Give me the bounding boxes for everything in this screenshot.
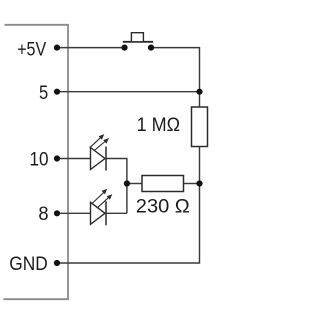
LED D1 triangle <box>91 148 106 170</box>
connector block U1 (microcontroller port outline) <box>4 25 69 299</box>
pushbutton S1 bar <box>123 41 153 43</box>
LED D2 triangle <box>91 202 106 224</box>
pin 8 dot <box>54 210 60 216</box>
svg-text:+5V: +5V <box>17 39 46 60</box>
svg-text:5: 5 <box>39 83 48 104</box>
resistor R2 230 Ω body <box>142 176 184 192</box>
LED D2 cathode bar <box>105 201 107 225</box>
resistor R1 1 MΩ body <box>192 107 208 147</box>
wire LED1 cathode right then down to LED2 row <box>106 159 127 214</box>
node A junction dot (pin5 / R1 top) <box>196 89 202 95</box>
wire pin 10 row to LED1 anode <box>57 158 91 160</box>
wire +5V row right segment to top-right corner down to node at pin5 row <box>151 48 200 92</box>
pin 10 dot <box>54 155 60 161</box>
LED D2 arrow 1 <box>92 189 108 204</box>
svg-text:230 Ω: 230 Ω <box>136 197 190 218</box>
wire pin 5 row <box>57 91 200 93</box>
pushbutton S1 cap <box>131 33 143 42</box>
LED D1 arrow 2 <box>94 138 109 151</box>
wire +5V row left segment <box>57 47 125 49</box>
pushbutton S1 left contact dot <box>121 45 127 51</box>
wire pin 8 row to LED2 anode <box>57 212 91 214</box>
svg-text:8: 8 <box>38 204 48 225</box>
svg-text:10: 10 <box>30 150 49 171</box>
svg-text:GND: GND <box>9 254 48 275</box>
LED D1 arrow 1 <box>90 134 105 148</box>
pin 5 dot <box>54 89 60 95</box>
pushbutton S1 right contact dot <box>148 45 154 51</box>
wire node to R2 left <box>127 183 142 185</box>
pin +5V dot <box>54 45 60 51</box>
wire R2 right to node on right vertical <box>184 183 200 185</box>
wire from node to R1 top <box>199 92 201 107</box>
wire from R1 bottom down right side to GND row <box>57 147 200 264</box>
LED D2 arrow 2 <box>97 194 112 208</box>
LED D1 cathode bar <box>105 147 107 171</box>
node B junction dot (LED cathodes / R2 left) <box>124 180 130 186</box>
svg-text:1 MΩ: 1 MΩ <box>137 115 181 136</box>
node C junction dot (R2 right / right vertical) <box>196 180 202 186</box>
wire LED2 cathode to vertical <box>106 212 127 214</box>
pin GND dot <box>54 260 60 266</box>
